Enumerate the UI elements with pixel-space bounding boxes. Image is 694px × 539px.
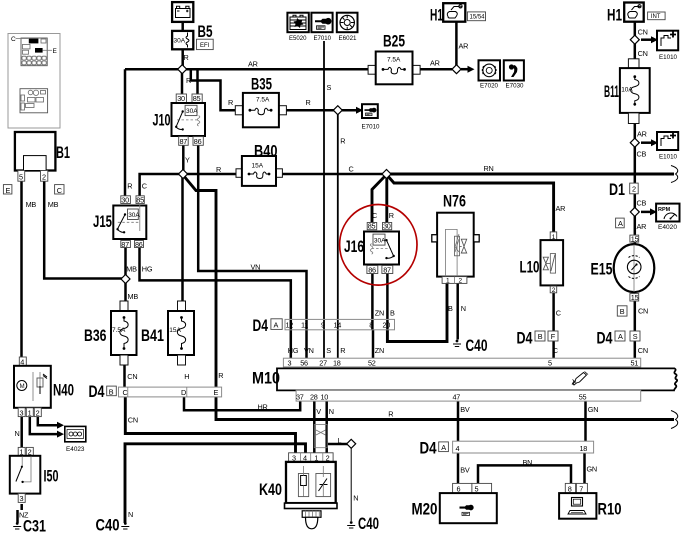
svg-text:30A: 30A bbox=[186, 108, 198, 115]
svg-text:MB: MB bbox=[128, 292, 139, 301]
svg-text:R10: R10 bbox=[598, 500, 622, 519]
svg-text:10: 10 bbox=[321, 393, 329, 402]
svg-text:R: R bbox=[186, 76, 191, 85]
svg-text:B35: B35 bbox=[251, 75, 272, 94]
svg-text:2: 2 bbox=[459, 277, 463, 284]
svg-text:30A: 30A bbox=[174, 38, 186, 45]
svg-text:GN: GN bbox=[587, 464, 597, 473]
svg-text:B1: B1 bbox=[56, 143, 70, 162]
svg-text:15A: 15A bbox=[169, 327, 181, 334]
svg-text:AR: AR bbox=[556, 204, 566, 213]
svg-text:30: 30 bbox=[177, 94, 185, 103]
svg-text:7.5A: 7.5A bbox=[256, 97, 270, 104]
svg-text:A: A bbox=[618, 219, 623, 228]
svg-text:H: H bbox=[184, 372, 189, 381]
svg-text:N40: N40 bbox=[53, 381, 74, 400]
svg-text:J10: J10 bbox=[153, 111, 171, 130]
svg-text:H1: H1 bbox=[430, 6, 443, 25]
svg-text:5: 5 bbox=[548, 358, 552, 367]
svg-text:55: 55 bbox=[579, 393, 587, 402]
svg-text:Y: Y bbox=[185, 156, 190, 165]
svg-text:2: 2 bbox=[36, 408, 40, 417]
svg-text:E5020: E5020 bbox=[289, 36, 307, 42]
svg-text:18: 18 bbox=[580, 444, 588, 453]
svg-text:3: 3 bbox=[20, 494, 24, 503]
svg-text:87: 87 bbox=[121, 240, 129, 249]
svg-text:5: 5 bbox=[19, 173, 23, 182]
svg-text:15A: 15A bbox=[252, 163, 264, 170]
svg-text:E4023: E4023 bbox=[66, 447, 85, 453]
svg-text:C: C bbox=[123, 388, 128, 397]
svg-text:I50: I50 bbox=[44, 466, 59, 485]
svg-text:BN: BN bbox=[523, 458, 533, 467]
svg-text:D1: D1 bbox=[609, 180, 625, 199]
svg-text:B40: B40 bbox=[254, 142, 278, 161]
svg-text:AR: AR bbox=[248, 59, 258, 68]
svg-text:R: R bbox=[389, 211, 394, 220]
svg-text:15/54: 15/54 bbox=[470, 15, 486, 21]
svg-text:B: B bbox=[109, 387, 114, 396]
svg-text:AR: AR bbox=[459, 42, 469, 51]
svg-text:E7030: E7030 bbox=[506, 84, 525, 90]
svg-text:CN: CN bbox=[638, 27, 648, 36]
svg-text:RN: RN bbox=[484, 164, 494, 173]
svg-text:CN: CN bbox=[127, 372, 137, 381]
svg-text:56: 56 bbox=[300, 358, 308, 367]
svg-text:86: 86 bbox=[135, 240, 143, 249]
svg-text:D4: D4 bbox=[89, 382, 105, 401]
svg-text:C: C bbox=[553, 346, 558, 355]
svg-text:J16: J16 bbox=[344, 237, 364, 256]
svg-text:B5: B5 bbox=[198, 22, 213, 41]
svg-text:7.5A: 7.5A bbox=[112, 327, 126, 334]
svg-text:A: A bbox=[618, 332, 623, 341]
svg-text:87: 87 bbox=[383, 266, 391, 275]
svg-text:R: R bbox=[127, 181, 132, 190]
svg-text:N: N bbox=[15, 429, 20, 438]
svg-text:E6021: E6021 bbox=[339, 36, 358, 42]
svg-text:8: 8 bbox=[369, 321, 373, 330]
svg-text:37: 37 bbox=[296, 393, 304, 402]
svg-text:N: N bbox=[128, 510, 133, 519]
svg-text:S: S bbox=[326, 346, 331, 355]
svg-text:4: 4 bbox=[456, 444, 460, 453]
svg-text:C40: C40 bbox=[358, 514, 379, 533]
svg-text:M10: M10 bbox=[252, 368, 280, 387]
svg-text:B36: B36 bbox=[84, 326, 107, 345]
svg-text:CN: CN bbox=[638, 49, 648, 58]
svg-text:30: 30 bbox=[121, 195, 129, 204]
svg-text:3: 3 bbox=[20, 408, 24, 417]
svg-text:C40: C40 bbox=[466, 336, 488, 355]
svg-text:E: E bbox=[53, 48, 58, 55]
svg-text:H1: H1 bbox=[607, 6, 622, 25]
svg-text:R: R bbox=[388, 410, 393, 419]
svg-text:85: 85 bbox=[136, 195, 144, 204]
svg-text:R: R bbox=[306, 98, 311, 107]
svg-text:HR: HR bbox=[258, 402, 268, 411]
svg-text:30A: 30A bbox=[128, 212, 140, 219]
svg-text:E7010: E7010 bbox=[314, 36, 332, 42]
svg-text:ZN: ZN bbox=[375, 346, 384, 355]
svg-text:87: 87 bbox=[180, 137, 188, 146]
svg-text:INT: INT bbox=[651, 14, 661, 20]
svg-text:86: 86 bbox=[194, 137, 202, 146]
svg-text:B25: B25 bbox=[383, 32, 405, 51]
svg-text:J15: J15 bbox=[93, 212, 112, 231]
svg-text:N: N bbox=[353, 494, 358, 503]
svg-text:S: S bbox=[327, 83, 332, 92]
svg-text:K40: K40 bbox=[259, 480, 282, 499]
svg-text:2: 2 bbox=[552, 287, 556, 294]
svg-text:HG: HG bbox=[288, 346, 299, 355]
svg-text:CN: CN bbox=[128, 415, 138, 424]
svg-text:R: R bbox=[216, 165, 221, 174]
svg-text:85: 85 bbox=[368, 222, 376, 231]
svg-text:18: 18 bbox=[333, 358, 341, 367]
svg-text:BV: BV bbox=[460, 465, 470, 474]
svg-text:C40: C40 bbox=[96, 516, 120, 535]
svg-text:RPM: RPM bbox=[658, 207, 671, 213]
svg-text:M20: M20 bbox=[412, 500, 438, 519]
svg-text:C: C bbox=[372, 211, 377, 220]
svg-text:12: 12 bbox=[286, 321, 294, 330]
svg-text:A: A bbox=[274, 320, 279, 329]
svg-text:E: E bbox=[6, 186, 11, 195]
svg-text:CB: CB bbox=[637, 150, 647, 159]
svg-text:ZN: ZN bbox=[375, 308, 384, 317]
svg-text:M: M bbox=[20, 384, 25, 390]
svg-text:N76: N76 bbox=[443, 191, 466, 210]
svg-text:30: 30 bbox=[383, 222, 391, 231]
svg-text:L10: L10 bbox=[520, 258, 540, 277]
svg-text:E1010: E1010 bbox=[659, 55, 678, 61]
svg-text:MB: MB bbox=[48, 200, 59, 209]
svg-text:MB: MB bbox=[126, 265, 137, 274]
svg-text:3: 3 bbox=[288, 358, 292, 367]
svg-text:47: 47 bbox=[453, 393, 461, 402]
svg-text:1: 1 bbox=[28, 408, 32, 417]
svg-text:1: 1 bbox=[446, 277, 450, 284]
svg-text:R: R bbox=[218, 371, 223, 380]
svg-text:C: C bbox=[57, 186, 62, 195]
svg-text:EFI: EFI bbox=[200, 43, 210, 49]
svg-text:L: L bbox=[338, 436, 342, 445]
svg-text:14: 14 bbox=[334, 321, 342, 330]
svg-text:15: 15 bbox=[631, 293, 639, 302]
svg-text:VN: VN bbox=[251, 263, 261, 272]
svg-text:NZ: NZ bbox=[19, 511, 29, 520]
svg-text:D: D bbox=[181, 388, 186, 397]
svg-text:D4: D4 bbox=[420, 439, 437, 458]
svg-text:N: N bbox=[461, 304, 466, 313]
svg-text:85: 85 bbox=[193, 94, 201, 103]
svg-text:D4: D4 bbox=[517, 329, 533, 348]
svg-text:E: E bbox=[214, 388, 219, 397]
svg-text:C: C bbox=[349, 165, 354, 174]
svg-text:E7010: E7010 bbox=[362, 124, 381, 130]
svg-text:HG: HG bbox=[142, 265, 153, 274]
svg-text:A: A bbox=[441, 443, 446, 452]
svg-text:C: C bbox=[11, 36, 16, 43]
svg-text:2: 2 bbox=[632, 185, 636, 194]
svg-text:AR: AR bbox=[637, 222, 647, 231]
svg-text:R: R bbox=[340, 137, 345, 146]
svg-text:15: 15 bbox=[631, 234, 639, 243]
svg-text:20: 20 bbox=[383, 321, 391, 330]
svg-text:51: 51 bbox=[631, 358, 639, 367]
svg-text:R: R bbox=[184, 53, 189, 62]
svg-text:7.5A: 7.5A bbox=[387, 57, 401, 64]
svg-text:9: 9 bbox=[321, 321, 325, 330]
svg-text:S: S bbox=[633, 332, 638, 341]
svg-text:86: 86 bbox=[368, 266, 376, 275]
svg-text:CN: CN bbox=[638, 306, 648, 315]
svg-text:V: V bbox=[316, 407, 321, 416]
svg-text:N: N bbox=[329, 407, 334, 416]
svg-text:11: 11 bbox=[301, 321, 308, 330]
svg-text:CB: CB bbox=[637, 198, 647, 207]
svg-text:2: 2 bbox=[42, 173, 46, 182]
svg-text:R: R bbox=[340, 346, 345, 355]
svg-text:C: C bbox=[142, 181, 147, 190]
svg-text:GN: GN bbox=[588, 405, 598, 414]
svg-text:E1010: E1010 bbox=[659, 154, 678, 160]
svg-text:E4020: E4020 bbox=[658, 225, 678, 231]
svg-text:27: 27 bbox=[319, 358, 327, 367]
svg-text:B11: B11 bbox=[604, 82, 619, 101]
svg-text:CN: CN bbox=[638, 346, 648, 355]
svg-text:E7020: E7020 bbox=[480, 84, 499, 90]
svg-text:10A: 10A bbox=[621, 87, 633, 94]
svg-text:B: B bbox=[390, 308, 395, 317]
svg-text:AR: AR bbox=[430, 59, 440, 68]
svg-text:B: B bbox=[620, 307, 625, 316]
svg-text:BV: BV bbox=[460, 405, 470, 414]
svg-text:B41: B41 bbox=[141, 326, 164, 345]
svg-text:R: R bbox=[228, 98, 233, 107]
svg-text:D4: D4 bbox=[253, 316, 269, 335]
svg-text:30A: 30A bbox=[374, 238, 386, 245]
svg-text:52: 52 bbox=[368, 358, 376, 367]
svg-text:MB: MB bbox=[26, 200, 37, 209]
svg-text:B: B bbox=[538, 332, 543, 341]
svg-text:28: 28 bbox=[310, 393, 318, 402]
svg-text:D4: D4 bbox=[597, 329, 613, 348]
svg-text:E15: E15 bbox=[591, 260, 613, 279]
svg-text:B: B bbox=[448, 304, 453, 313]
svg-text:C: C bbox=[556, 308, 561, 317]
svg-text:AR: AR bbox=[637, 129, 647, 138]
svg-text:VN: VN bbox=[304, 346, 314, 355]
